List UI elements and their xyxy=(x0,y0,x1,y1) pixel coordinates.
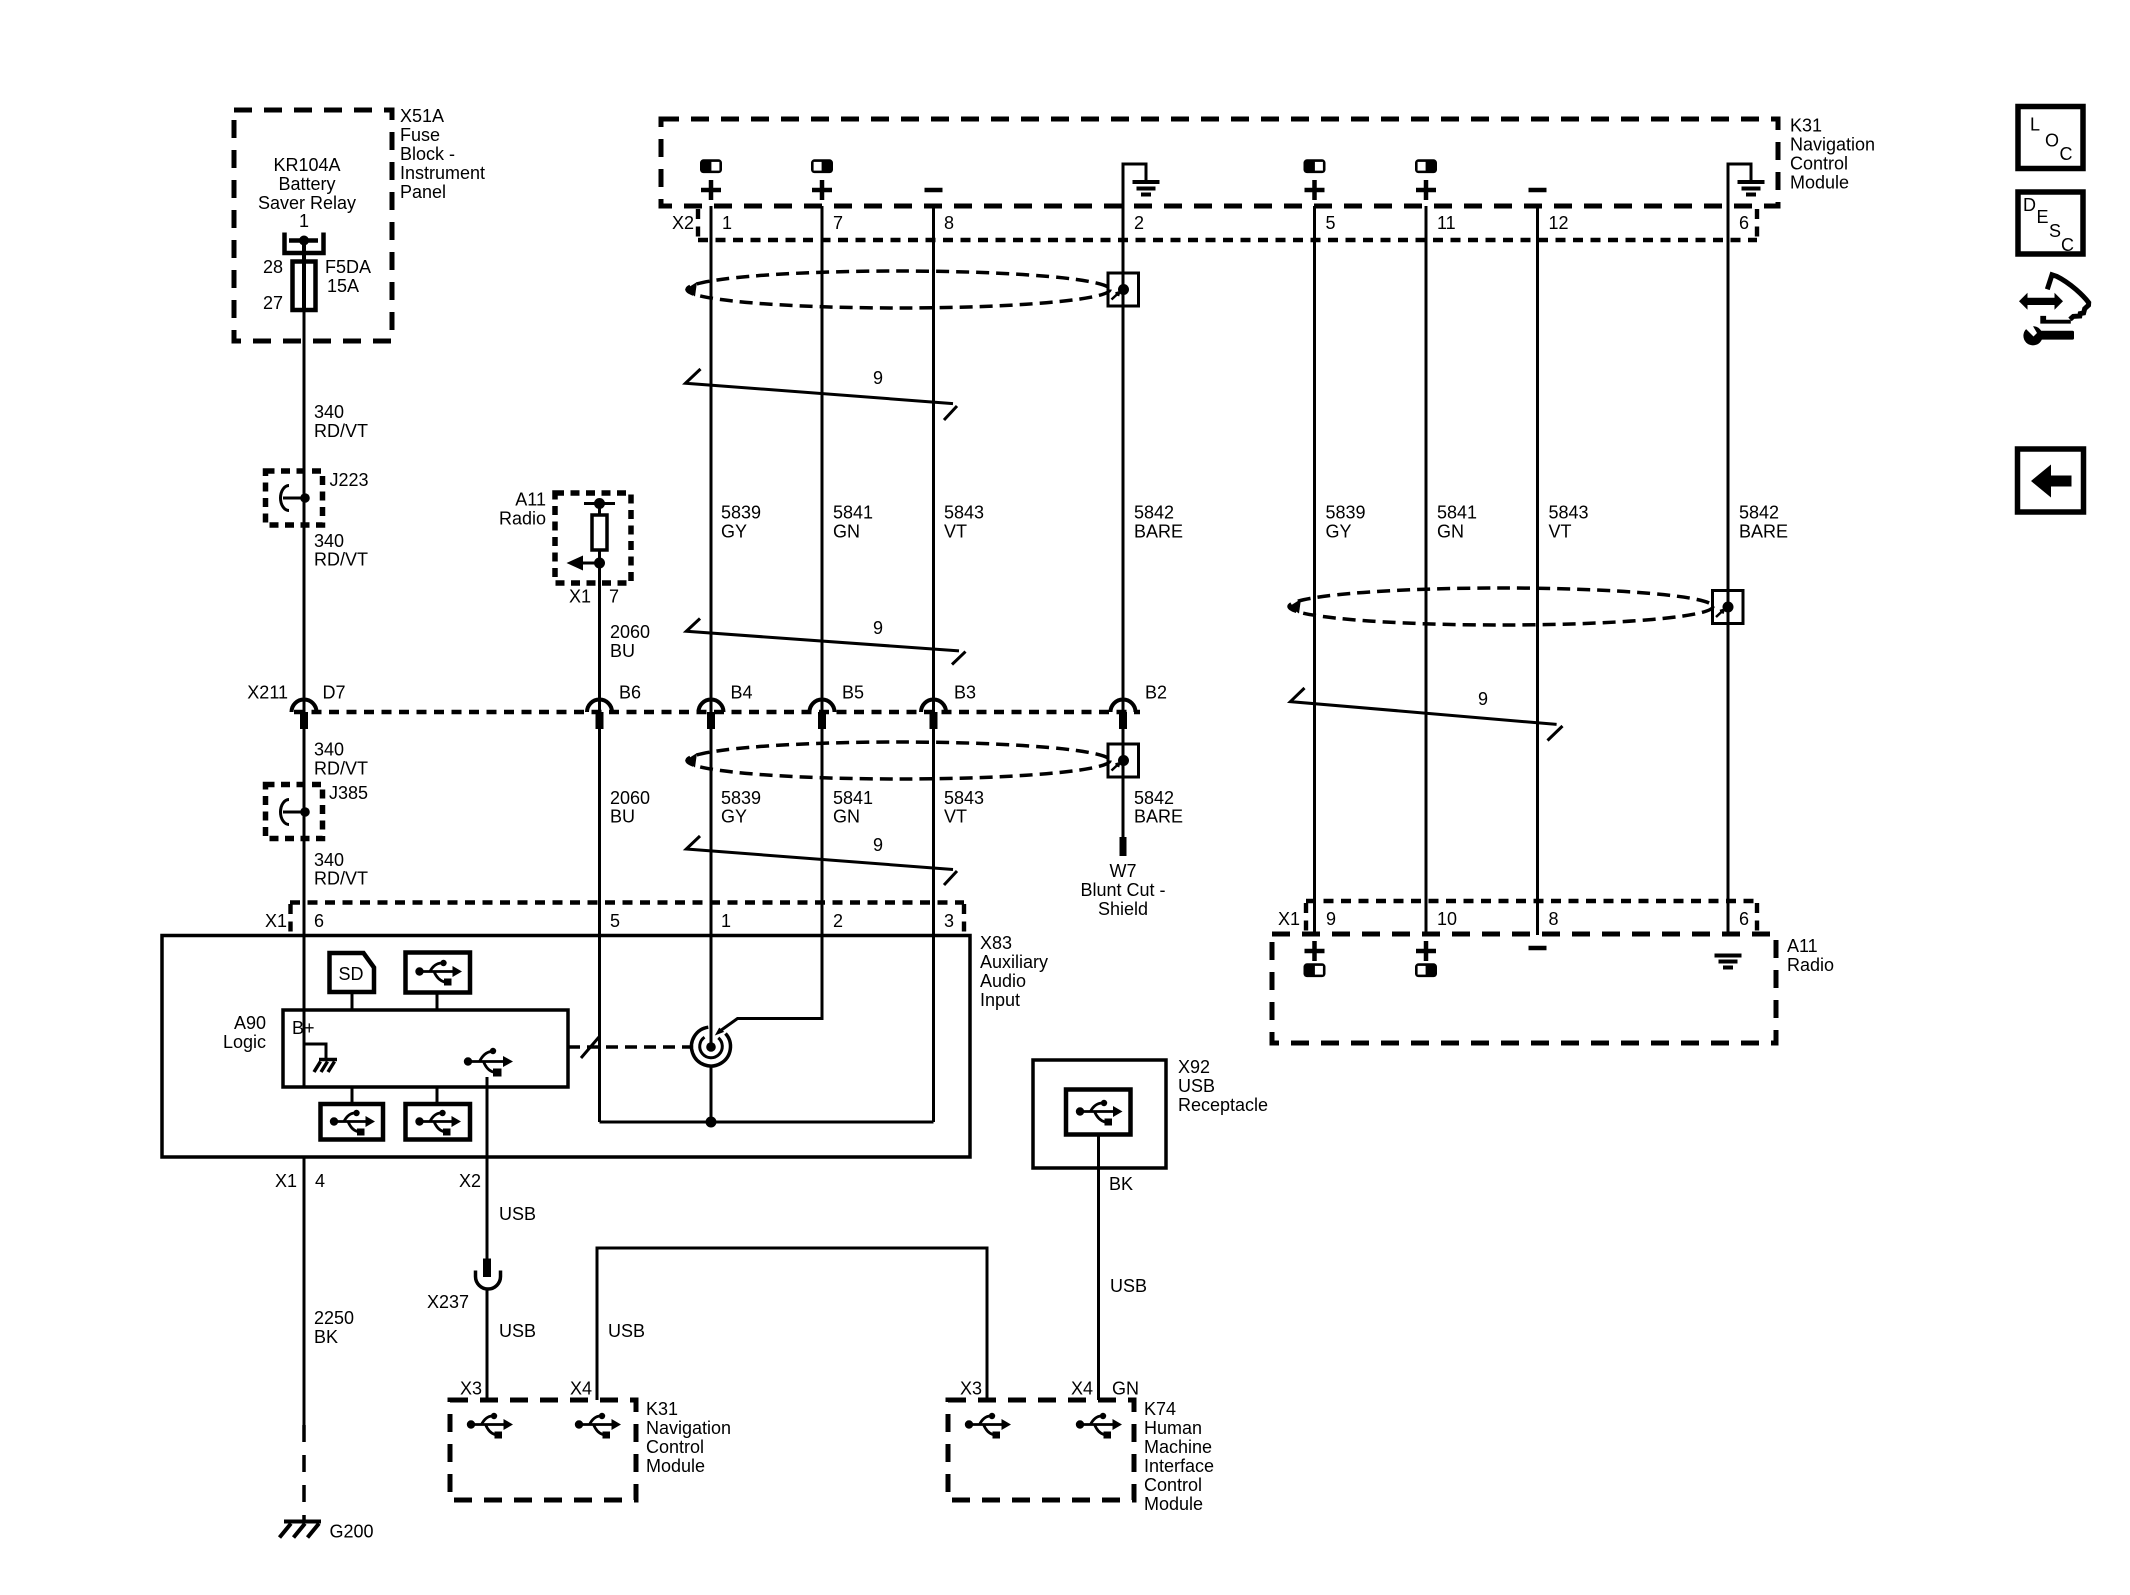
shield termination square on wire 5842 (right) xyxy=(1713,591,1744,624)
wire 5839 GY K31 X2-1 to X83 X1-1 xyxy=(710,206,713,935)
DESC button box xyxy=(2018,192,2083,254)
radio A11 box (bottom) xyxy=(1272,934,1776,1043)
svg-text:B4: B4 xyxy=(731,683,753,703)
svg-text:5: 5 xyxy=(610,911,620,931)
wire X83 pin 2 ring contact xyxy=(720,936,822,1032)
speaker icon A11 pin 10 right-filled xyxy=(1415,963,1437,977)
svg-text:Block -: Block - xyxy=(400,144,455,164)
svg-text:X2: X2 xyxy=(459,1171,481,1191)
svg-text:BARE: BARE xyxy=(1134,807,1183,827)
svg-text:15A: 15A xyxy=(327,276,359,296)
wire USB A90 X2 to X237 xyxy=(486,1157,489,1260)
svg-text:X1: X1 xyxy=(569,587,591,607)
svg-text:USB: USB xyxy=(608,1321,645,1341)
svg-text:1: 1 xyxy=(722,213,732,233)
svg-text:5843: 5843 xyxy=(1549,503,1589,523)
X211 terminal B2 xyxy=(1111,683,1168,730)
svg-text:Interface: Interface xyxy=(1144,1456,1214,1476)
USB trident K74 X4 xyxy=(1076,1413,1122,1439)
speaker icon pin 11 right-filled xyxy=(1415,159,1437,173)
svg-text:5841: 5841 xyxy=(833,503,873,523)
ground symbol in K31 pin 6 xyxy=(1728,164,1765,206)
svg-text:K31: K31 xyxy=(646,1399,678,1419)
svg-text:1: 1 xyxy=(299,211,309,231)
svg-text:Receptacle: Receptacle xyxy=(1178,1095,1268,1115)
svg-text:O: O xyxy=(2045,131,2059,151)
svg-text:BK: BK xyxy=(314,1327,338,1347)
mechanical link dashed to jack xyxy=(568,1037,690,1058)
twisted pair ellipse middle xyxy=(687,742,1110,779)
X211 terminal B3 xyxy=(921,683,976,730)
svg-text:D7: D7 xyxy=(323,683,346,703)
svg-text:D: D xyxy=(2023,195,2036,215)
USB receptacle X92 box xyxy=(1033,1057,1268,1168)
svg-text:9: 9 xyxy=(873,835,883,855)
svg-text:340: 340 xyxy=(314,740,344,760)
svg-text:9: 9 xyxy=(873,368,883,388)
USB port icon bottom-right xyxy=(406,1087,471,1140)
wire A90 X2 pin down xyxy=(486,1077,489,1157)
svg-text:340: 340 xyxy=(314,531,344,551)
splice J223 symbol xyxy=(283,497,305,500)
svg-text:B5: B5 xyxy=(842,683,864,703)
svg-text:9: 9 xyxy=(873,618,883,638)
svg-text:G200: G200 xyxy=(330,1522,374,1542)
plus sign pin 11 xyxy=(1416,180,1436,200)
svg-text:12: 12 xyxy=(1549,213,1569,233)
relay KR104A contact xyxy=(285,233,324,254)
svg-text:Radio: Radio xyxy=(1787,955,1834,975)
svg-text:X1: X1 xyxy=(1278,909,1300,929)
svg-text:BARE: BARE xyxy=(1739,522,1788,542)
wire USB X237 to K31 X3 xyxy=(486,1289,489,1400)
svg-text:5: 5 xyxy=(1326,213,1336,233)
svg-text:USB: USB xyxy=(499,1321,536,1341)
SEC_K31TOP2 xyxy=(247,206,1183,935)
svg-text:C: C xyxy=(2060,144,2073,164)
blunt cut W7 shield end xyxy=(1080,837,1165,919)
svg-text:9: 9 xyxy=(1478,689,1488,709)
svg-text:4: 4 xyxy=(315,1171,325,1191)
module K74 HMI Control Module box xyxy=(948,1400,1134,1500)
shield termination square on wire 5842 (middle) xyxy=(1108,744,1139,777)
ground G200 xyxy=(280,1522,374,1542)
module K31 Navigation Control Module box (bottom) xyxy=(450,1400,636,1500)
svg-text:Control: Control xyxy=(1144,1475,1202,1495)
svg-text:X83: X83 xyxy=(980,933,1012,953)
svg-text:USB: USB xyxy=(1178,1076,1215,1096)
svg-text:Instrument: Instrument xyxy=(400,163,485,183)
USB port icon bottom-left xyxy=(321,1087,384,1140)
svg-text:27: 27 xyxy=(263,293,283,313)
speaker icon pin 7 right-filled xyxy=(811,159,833,173)
svg-text:2250: 2250 xyxy=(314,1308,354,1328)
svg-text:X3: X3 xyxy=(460,1379,482,1399)
svg-text:5843: 5843 xyxy=(944,788,984,808)
svg-text:6: 6 xyxy=(314,911,324,931)
svg-text:2: 2 xyxy=(1134,213,1144,233)
wire 5842 BARE K31 X2-6 to A11 X1-6 xyxy=(1727,206,1730,935)
wire X83 pin 3 inside xyxy=(932,936,935,1123)
svg-text:Module: Module xyxy=(1790,173,1849,193)
A11 internal node bar xyxy=(584,502,615,505)
svg-text:X4: X4 xyxy=(1071,1379,1093,1399)
svg-text:2060: 2060 xyxy=(610,622,650,642)
svg-text:J223: J223 xyxy=(330,470,369,490)
svg-text:X211: X211 xyxy=(247,683,288,703)
svg-text:5842: 5842 xyxy=(1739,503,1779,523)
svg-text:GY: GY xyxy=(1326,522,1352,542)
USB trident K74 X3 xyxy=(965,1413,1011,1439)
connector X2 band dotted line xyxy=(698,238,1757,242)
shield bus bottom horizontal xyxy=(600,1121,934,1124)
svg-text:GY: GY xyxy=(721,807,747,827)
svg-text:28: 28 xyxy=(263,257,283,277)
diagnostic wrench icon xyxy=(2023,322,2075,345)
svg-text:Battery: Battery xyxy=(278,174,335,194)
cable 9 slash top xyxy=(686,368,958,420)
svg-text:RD/VT: RD/VT xyxy=(314,421,368,441)
A11 X1 band right tick xyxy=(1755,903,1759,932)
svg-text:J385: J385 xyxy=(329,783,368,803)
earth ground symbol A11 pin 6 xyxy=(1715,956,1742,968)
X1 band left tick xyxy=(288,904,292,933)
plus sign pin 5 xyxy=(1305,180,1325,200)
svg-text:VT: VT xyxy=(1549,522,1572,542)
X2 band left tick xyxy=(696,209,700,243)
svg-text:11: 11 xyxy=(1437,213,1456,233)
wire 2060 BU A11 to X83 X1-5 xyxy=(598,583,601,935)
wire 2250 BK A90 X1-4 to G200 solid part xyxy=(303,1157,306,1425)
svg-text:RD/VT: RD/VT xyxy=(314,759,368,779)
svg-text:Panel: Panel xyxy=(400,182,446,202)
svg-text:5839: 5839 xyxy=(721,788,761,808)
svg-text:X92: X92 xyxy=(1178,1057,1210,1077)
twisted pair ellipse top xyxy=(687,271,1110,308)
wire X83 pin 1 tip contact xyxy=(710,936,713,1048)
plus sign pin 7 xyxy=(812,180,832,200)
svg-text:A11: A11 xyxy=(515,490,546,510)
wire 340 RD/VT fuse to X83 xyxy=(303,310,306,935)
twisted pair ellipse right xyxy=(1289,588,1713,625)
auxiliary audio input X83 outer box xyxy=(162,936,970,1158)
cable 9 slash below X211 xyxy=(686,835,957,885)
svg-text:GY: GY xyxy=(721,522,747,542)
svg-text:L: L xyxy=(2030,115,2040,135)
svg-text:Navigation: Navigation xyxy=(646,1418,731,1438)
wire X83 pin 5 inside xyxy=(598,936,601,1123)
splice J385 symbol xyxy=(283,811,305,814)
svg-text:B6: B6 xyxy=(619,683,641,703)
svg-text:5839: 5839 xyxy=(1326,503,1366,523)
svg-text:E: E xyxy=(2037,207,2049,227)
cable 9 slash right xyxy=(1290,688,1562,741)
svg-text:5841: 5841 xyxy=(1437,503,1477,523)
ground symbol in K31 pin 2 xyxy=(1123,164,1160,206)
plus sign pin 1 xyxy=(701,180,721,200)
svg-text:GN: GN xyxy=(1437,522,1464,542)
svg-text:VT: VT xyxy=(944,522,967,542)
wire 5842 BARE shield K31 X2-2 to W7 xyxy=(1122,206,1125,837)
svg-text:BK: BK xyxy=(1109,1174,1133,1194)
USB trident K31 X3 xyxy=(467,1413,513,1439)
svg-text:Control: Control xyxy=(646,1437,704,1457)
USB trident inside A90 xyxy=(464,1048,513,1077)
svg-text:RD/VT: RD/VT xyxy=(314,550,368,570)
svg-text:BU: BU xyxy=(610,641,635,661)
svg-text:Navigation: Navigation xyxy=(1790,135,1875,155)
svg-text:340: 340 xyxy=(314,850,344,870)
svg-text:USB: USB xyxy=(1110,1276,1147,1296)
svg-text:KR104A: KR104A xyxy=(273,155,340,175)
svg-text:X237: X237 xyxy=(427,1292,469,1312)
speaker icon A11 pin 9 left-filled xyxy=(1304,963,1326,977)
speaker icon pin 1 left-filled xyxy=(700,159,722,173)
svg-text:F5DA: F5DA xyxy=(325,257,371,277)
A11 X1 band left tick xyxy=(1304,903,1308,932)
svg-text:5839: 5839 xyxy=(721,503,761,523)
svg-text:A11: A11 xyxy=(1787,936,1818,956)
svg-text:10: 10 xyxy=(1437,909,1457,929)
svg-text:RD/VT: RD/VT xyxy=(314,869,368,889)
wire B+ through A90 xyxy=(303,936,306,1088)
cable 9 slash middle xyxy=(686,618,965,665)
svg-text:Radio: Radio xyxy=(499,509,546,529)
fuse F5DA 15A xyxy=(293,262,316,311)
USB port icon top xyxy=(406,953,471,1011)
svg-text:7: 7 xyxy=(833,213,843,233)
minus sign pin 8 xyxy=(925,188,943,193)
diagnostic car icon double arrow xyxy=(2019,275,2089,346)
SD card icon xyxy=(330,953,375,1010)
svg-text:8: 8 xyxy=(944,213,954,233)
X211 terminal B4 xyxy=(699,683,753,730)
back arrow button box xyxy=(2018,449,2084,512)
SEC_MID2 xyxy=(162,903,1048,1192)
svg-text:5841: 5841 xyxy=(833,788,873,808)
fuse block X51A box xyxy=(234,110,392,341)
svg-text:9: 9 xyxy=(1326,909,1336,929)
svg-text:Input: Input xyxy=(980,990,1020,1010)
svg-text:X3: X3 xyxy=(960,1379,982,1399)
svg-text:GN: GN xyxy=(1112,1379,1139,1399)
svg-text:5842: 5842 xyxy=(1134,788,1174,808)
svg-text:Audio: Audio xyxy=(980,971,1026,991)
svg-text:Module: Module xyxy=(1144,1494,1203,1514)
wire 5839 GY K31 X2-5 to A11 X1-9 xyxy=(1313,206,1316,935)
connector X1 band at A11 dotted line xyxy=(1306,899,1757,903)
wire USB X92 to K74 X4 xyxy=(1097,1135,1100,1401)
svg-text:BARE: BARE xyxy=(1134,522,1183,542)
svg-text:7: 7 xyxy=(609,587,619,607)
svg-text:340: 340 xyxy=(314,402,344,422)
svg-text:X2: X2 xyxy=(672,213,694,233)
svg-text:8: 8 xyxy=(1549,909,1559,929)
svg-text:Module: Module xyxy=(646,1456,705,1476)
svg-text:Machine: Machine xyxy=(1144,1437,1212,1457)
svg-text:B3: B3 xyxy=(954,683,976,703)
svg-text:VT: VT xyxy=(944,807,967,827)
X1 band right tick xyxy=(962,904,966,933)
svg-text:BU: BU xyxy=(610,807,635,827)
svg-text:Fuse: Fuse xyxy=(400,125,440,145)
svg-text:Control: Control xyxy=(1790,154,1848,174)
wire USB K31 X4 to K74 X3 xyxy=(597,1248,987,1400)
svg-text:B2: B2 xyxy=(1145,683,1167,703)
USB trident K31 X4 xyxy=(575,1413,621,1439)
svg-text:X51A: X51A xyxy=(400,106,444,126)
speaker icon pin 5 left-filled xyxy=(1304,159,1326,173)
svg-text:K74: K74 xyxy=(1144,1399,1176,1419)
wire 5843 VT K31 X2-12 to A11 X1-8 xyxy=(1536,206,1539,935)
svg-text:A90: A90 xyxy=(234,1013,266,1033)
X211 terminal B6 xyxy=(587,683,641,730)
wire 2250 BK dashed part xyxy=(302,1425,306,1522)
svg-text:W7: W7 xyxy=(1110,861,1137,881)
connector X1 band at X83 dotted line xyxy=(290,900,964,904)
splice J223 box xyxy=(266,471,323,525)
svg-text:3: 3 xyxy=(944,911,954,931)
SEC_RIGHT2 xyxy=(280,1057,1269,1542)
inline connector X237 xyxy=(427,1259,501,1313)
plus sign A11 pin 9 xyxy=(1305,941,1325,961)
X2 band right tick xyxy=(1755,209,1759,243)
minus sign pin 12 xyxy=(1529,188,1547,193)
X211 terminal D7 xyxy=(292,683,346,730)
minus sign A11 pin 8 xyxy=(1529,946,1547,951)
svg-text:6: 6 xyxy=(1739,213,1749,233)
svg-text:2: 2 xyxy=(833,911,843,931)
shield termination square on wire 5842 (top) xyxy=(1108,273,1139,306)
SEC_X832 xyxy=(1272,206,1834,1043)
splice J385 box xyxy=(266,785,323,839)
logic module A90 box xyxy=(283,1010,568,1087)
svg-text:6: 6 xyxy=(1739,909,1749,929)
svg-text:Auxiliary: Auxiliary xyxy=(980,952,1048,972)
svg-text:X4: X4 xyxy=(570,1379,592,1399)
svg-text:X1: X1 xyxy=(265,911,287,931)
audio jack symbol xyxy=(691,1027,730,1066)
LOC button box xyxy=(2018,107,2083,169)
radio A11 box (top) xyxy=(555,493,631,583)
wire 5841 GN K31 X2-7 to X83 X1-2 xyxy=(821,206,824,935)
svg-text:Logic: Logic xyxy=(223,1032,266,1052)
plus sign A11 pin 10 xyxy=(1416,941,1436,961)
svg-text:GN: GN xyxy=(833,522,860,542)
module K31 Navigation Control Module box (top) xyxy=(661,119,1778,206)
svg-text:5843: 5843 xyxy=(944,503,984,523)
svg-text:GN: GN xyxy=(833,807,860,827)
svg-text:2060: 2060 xyxy=(610,788,650,808)
X211 terminal B5 xyxy=(810,683,865,730)
resistor in A11 radio xyxy=(598,504,601,516)
connector X211 dashed line xyxy=(294,710,1140,714)
wire 5843 VT K31 X2-8 to X83 X1-3 xyxy=(932,206,935,935)
chassis ground inside A90 xyxy=(304,1044,337,1072)
wire relay to fuse xyxy=(302,241,306,263)
junction dot shield bus xyxy=(706,1117,717,1128)
svg-text:SD: SD xyxy=(338,964,363,984)
SEC_FUSEBLOCK2 xyxy=(661,116,1875,244)
diagnostic car icon lower step xyxy=(2040,316,2071,324)
svg-text:Blunt Cut -: Blunt Cut - xyxy=(1080,880,1165,900)
diagnostic car icon outline xyxy=(2047,275,2088,320)
USB port icon in X92 xyxy=(1066,1090,1131,1135)
SEC_SIDEBAR2 xyxy=(234,106,485,935)
svg-text:S: S xyxy=(2049,221,2061,241)
svg-text:USB: USB xyxy=(499,1204,536,1224)
svg-text:C: C xyxy=(2061,235,2074,255)
svg-text:Shield: Shield xyxy=(1098,899,1148,919)
wire 5841 GN K31 X2-11 to A11 X1-10 xyxy=(1425,206,1428,935)
svg-text:K31: K31 xyxy=(1790,116,1822,136)
svg-text:Saver Relay: Saver Relay xyxy=(258,193,356,213)
svg-text:X1: X1 xyxy=(275,1171,297,1191)
svg-text:5842: 5842 xyxy=(1134,503,1174,523)
output arrow in A11 radio xyxy=(567,556,606,571)
svg-text:Human: Human xyxy=(1144,1418,1202,1438)
svg-text:1: 1 xyxy=(721,911,731,931)
